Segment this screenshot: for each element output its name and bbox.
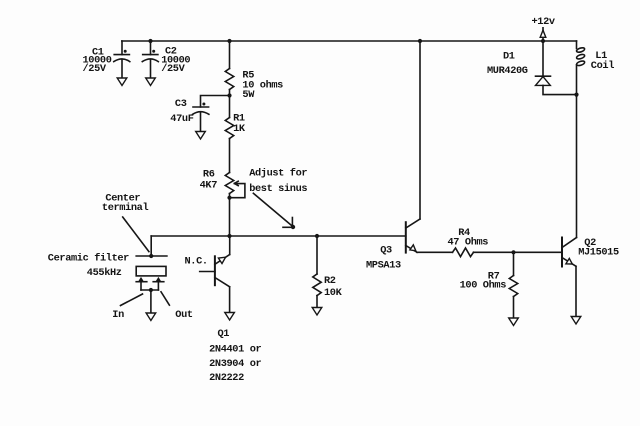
- ground (filter): [146, 313, 156, 321]
- transistor Q3: [406, 41, 453, 253]
- C1 label: [83, 46, 112, 75]
- C3 label: [170, 98, 193, 125]
- resistor R5: [225, 41, 233, 96]
- ground (Q2): [571, 317, 581, 325]
- R6 wiper arrow and wire: [230, 181, 245, 198]
- +12v supply arrow: [540, 28, 546, 41]
- filter In pin: [136, 277, 147, 290]
- svg-text:+12v: +12v: [532, 16, 555, 28]
- node rail/R5: [227, 39, 231, 43]
- ground (C3): [196, 132, 206, 140]
- inductor L1 coil: [576, 41, 585, 95]
- ground (R7): [509, 318, 519, 326]
- D1 label: [487, 50, 528, 77]
- svg-text:R2: R2: [324, 275, 336, 287]
- C2 polarity plus mark: [152, 50, 155, 53]
- svg-text:47uF: 47uF: [170, 113, 193, 125]
- node bracket center: [149, 288, 153, 292]
- annotation center terminal: [102, 193, 149, 214]
- svg-text:100 Ohms: 100 Ohms: [460, 280, 507, 292]
- node R6/Q1/mid-rail: [227, 234, 231, 238]
- transistor Q2: [562, 95, 577, 317]
- wire main mid rail: [151, 235, 406, 237]
- leader line In: [121, 294, 143, 306]
- node D1/L1/Q2 collector: [574, 93, 578, 97]
- ground (R2): [312, 308, 322, 316]
- C1 polarity plus mark: [124, 50, 127, 53]
- node rail/Q3 collector: [418, 39, 422, 43]
- svg-text:2N3904 or: 2N3904 or: [209, 358, 261, 370]
- svg-text:N.C.: N.C.: [185, 255, 208, 267]
- svg-text:Adjust for: Adjust for: [249, 167, 307, 179]
- node R5/C3/R1: [227, 93, 231, 97]
- svg-text:2N4401 or: 2N4401 or: [209, 344, 261, 356]
- svg-text:D1: D1: [503, 50, 515, 62]
- wire filter pin bracket: [141, 289, 158, 291]
- Q3 label: [366, 245, 401, 272]
- ground (C1): [117, 78, 127, 86]
- L1 label: [591, 50, 614, 72]
- svg-text:Q1: Q1: [218, 328, 230, 340]
- C2 label: [161, 46, 190, 75]
- svg-text:best sinus: best sinus: [249, 183, 307, 195]
- Q2 label: [578, 237, 619, 258]
- wire top +12V rail: [122, 40, 577, 42]
- svg-text:In: In: [112, 309, 124, 321]
- svg-text:455kHz: 455kHz: [87, 267, 122, 279]
- R4 label: [448, 227, 489, 249]
- filter Out pin: [153, 277, 164, 290]
- wire bracket to ground: [150, 290, 152, 313]
- leader line Out: [161, 292, 169, 305]
- leader line center terminal: [123, 217, 149, 252]
- svg-text:5W: 5W: [242, 89, 255, 101]
- ground (C2): [146, 78, 156, 86]
- svg-text:Coil: Coil: [591, 60, 614, 72]
- capacitor C2: [142, 41, 158, 78]
- R5 label: [242, 70, 283, 101]
- svg-text:/25V: /25V: [161, 63, 185, 75]
- annotation adjust-for-best-sinus text: [249, 167, 307, 195]
- svg-text:4K7: 4K7: [200, 179, 218, 191]
- node rail/+12v/D1: [541, 39, 545, 43]
- svg-text:C3: C3: [175, 98, 187, 110]
- R6 label: [200, 169, 218, 192]
- svg-text:2N2222: 2N2222: [209, 372, 244, 384]
- resistor R1: [225, 96, 233, 173]
- resistor R2: [313, 236, 321, 308]
- svg-text:MUR420G: MUR420G: [487, 65, 528, 77]
- annotation arrow to wiper node: [253, 193, 295, 229]
- resistor R4: [453, 248, 514, 257]
- capacitor C3: [193, 107, 209, 132]
- node R4/R7/Q2 base: [511, 250, 515, 254]
- svg-text:47 Ohms: 47 Ohms: [448, 237, 489, 249]
- svg-text:1K: 1K: [233, 123, 246, 135]
- resistor R7: [509, 252, 517, 318]
- svg-text:MPSA13: MPSA13: [366, 260, 401, 272]
- capacitor C1: [114, 41, 130, 78]
- svg-text:/25V: /25V: [83, 63, 107, 75]
- wire down to ceramic filter: [150, 236, 152, 256]
- svg-text:Ceramic filter: Ceramic filter: [48, 252, 129, 264]
- R1 label: [233, 113, 246, 135]
- node filter center terminal: [149, 254, 153, 258]
- potentiometer R6: [225, 173, 233, 237]
- transistor Q1: [200, 236, 230, 313]
- wire C3 branch: [201, 96, 230, 108]
- ceramic filter FL1: [136, 256, 167, 276]
- node R6 wiper junction: [227, 196, 231, 200]
- svg-text:10K: 10K: [324, 287, 343, 299]
- R2 label: [324, 275, 343, 299]
- diode D1: [536, 41, 577, 95]
- svg-text:Q3: Q3: [380, 245, 392, 257]
- filter label: [48, 252, 129, 278]
- C3 polarity plus mark: [202, 103, 205, 106]
- svg-text:terminal: terminal: [102, 202, 149, 214]
- Q1 label: [209, 328, 261, 384]
- svg-text:Out: Out: [175, 309, 193, 321]
- wire R4 node to Q2 base: [514, 251, 563, 253]
- R7 label: [460, 270, 507, 291]
- node R2/mid-rail: [315, 234, 319, 238]
- node rail/C2: [148, 39, 152, 43]
- ground (Q1): [225, 313, 235, 321]
- svg-text:MJ15015: MJ15015: [578, 246, 619, 258]
